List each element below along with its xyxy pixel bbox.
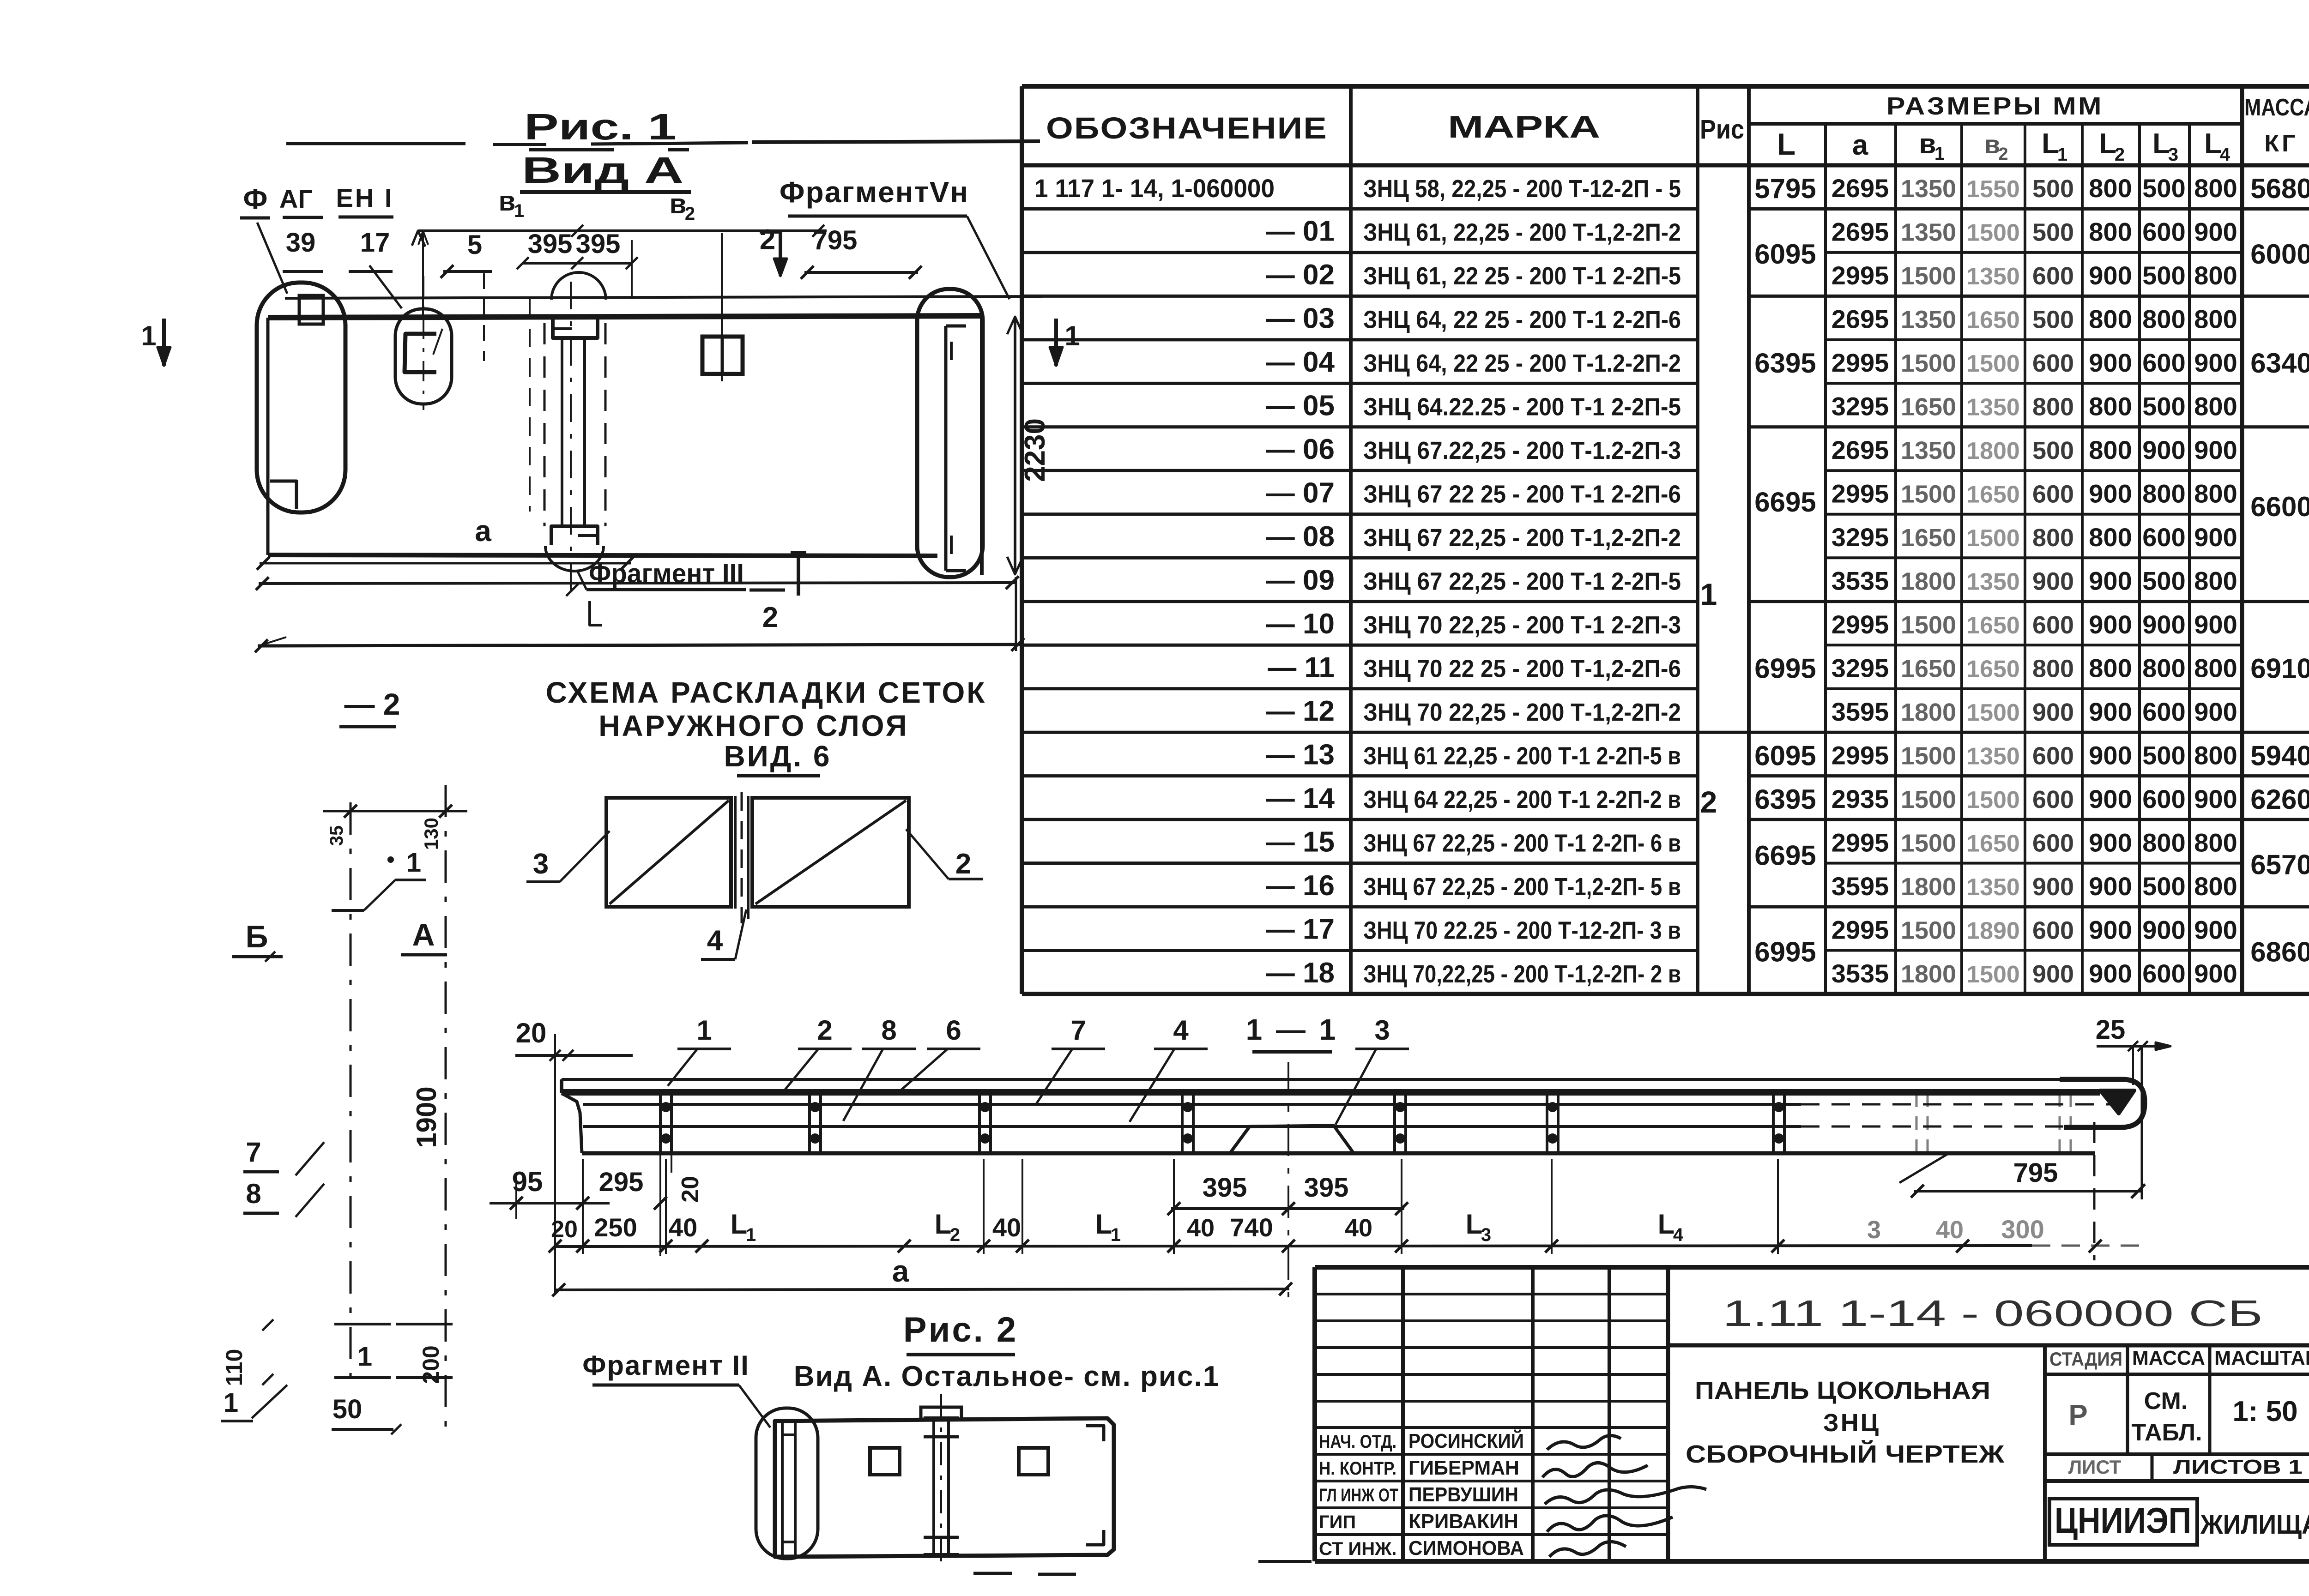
svg-text:5680: 5680 — [2250, 173, 2309, 204]
table row lines — [1022, 207, 1698, 211]
svg-text:6995: 6995 — [1754, 937, 1816, 968]
svg-text:900: 900 — [2089, 566, 2132, 596]
svg-text:1500: 1500 — [1966, 220, 2020, 247]
svg-text:КГ: КГ — [2264, 130, 2298, 157]
table header row lines — [1022, 163, 2309, 168]
svg-text:800: 800 — [2089, 392, 2132, 421]
svg-text:5940: 5940 — [2250, 740, 2309, 771]
section dim 20 left — [515, 1054, 633, 1057]
svg-text:L: L — [2042, 128, 2059, 160]
section mesh lines — [583, 1103, 1801, 1106]
svg-text:800: 800 — [2194, 261, 2237, 290]
svg-text:— 12: — 12 — [1266, 695, 1335, 727]
svg-text:РОСИНСКИЙ: РОСИНСКИЙ — [1408, 1429, 1524, 1452]
svg-text:ЗНЦ: ЗНЦ — [1823, 1409, 1880, 1437]
svg-text:L: L — [2099, 128, 2116, 160]
svg-text:ЦНИИЭП: ЦНИИЭП — [2055, 1500, 2191, 1541]
svg-text:500: 500 — [2142, 392, 2185, 421]
svg-text:600: 600 — [2142, 217, 2185, 247]
svg-text:1350: 1350 — [1966, 394, 2020, 421]
svg-text:— 17: — 17 — [1266, 913, 1335, 945]
svg-text:ЗНЦ 70 22.25 - 200 Т-12-2П- 3: ЗНЦ 70 22.25 - 200 Т-12-2П- 3 в — [1363, 916, 1681, 944]
svg-text:ЗНЦ 67 22,25 - 200 Т-1,2-2П- 5: ЗНЦ 67 22,25 - 200 Т-1,2-2П- 5 в — [1363, 873, 1681, 901]
fig1 panel body outline — [266, 318, 270, 555]
svg-text:6260: 6260 — [2250, 784, 2309, 815]
svg-text:600: 600 — [2032, 786, 2074, 813]
svg-text:МАССА: МАССА — [2244, 94, 2309, 121]
svg-text:Ф: Ф — [243, 183, 268, 215]
fig1 dim line 395 395 — [523, 262, 632, 265]
svg-text:1890: 1890 — [1966, 917, 2020, 944]
svg-text:600: 600 — [2142, 697, 2185, 726]
svg-text:ЗНЦ 70,22,25 - 200 Т-1,2-2П- 2: ЗНЦ 70,22,25 - 200 Т-1,2-2П- 2 в — [1363, 960, 1681, 988]
svg-text:3595: 3595 — [1831, 872, 1889, 901]
svg-text:900: 900 — [2089, 784, 2132, 813]
svg-text:ЗНЦ 67 22,25 - 200 Т-1,2-2П-2: ЗНЦ 67 22,25 - 200 Т-1,2-2П-2 — [1363, 524, 1681, 552]
svg-text:1350: 1350 — [1901, 219, 1956, 247]
svg-text:1650: 1650 — [1966, 612, 2020, 639]
svg-text:6395: 6395 — [1754, 348, 1816, 379]
svg-text:1650: 1650 — [1966, 656, 2020, 682]
svg-text:20: 20 — [677, 1176, 704, 1203]
svg-text:1650: 1650 — [1966, 830, 2020, 857]
svg-text:600: 600 — [2142, 784, 2185, 813]
svg-text:ФрагментVн: ФрагментVн — [780, 175, 969, 209]
svg-text:800: 800 — [2089, 174, 2132, 203]
svg-text:Вид А: Вид А — [522, 150, 683, 191]
titleblock signature row lines — [1315, 1293, 1668, 1295]
section right end rounded corner with anchor — [2060, 1079, 2145, 1127]
svg-text:1500: 1500 — [1966, 961, 2020, 988]
svg-text:1350: 1350 — [1901, 306, 1956, 334]
svg-text:40: 40 — [992, 1213, 1021, 1242]
svg-text:МАССА: МАССА — [2132, 1347, 2205, 1369]
fig1 center joint dashed sides — [544, 323, 546, 526]
fig1 right end capsule (fragment Vn zone) — [917, 289, 983, 577]
svg-text:900: 900 — [2194, 959, 2237, 988]
svg-text:800: 800 — [2194, 479, 2237, 508]
svg-text:3: 3 — [1481, 1225, 1491, 1245]
svg-text:1500: 1500 — [1901, 262, 1956, 290]
svg-text:110: 110 — [221, 1349, 247, 1386]
svg-text:5795: 5795 — [1754, 173, 1816, 204]
svg-text:900: 900 — [2089, 610, 2132, 639]
svg-text:ЗНЦ 64.22.25 - 200 Т-1 2-2П-5: ЗНЦ 64.22.25 - 200 Т-1 2-2П-5 — [1363, 393, 1681, 421]
svg-text:— 16: — 16 — [1266, 870, 1335, 902]
fig1 center joint bottom cap — [551, 526, 598, 545]
svg-text:800: 800 — [2194, 828, 2237, 857]
svg-text:1500: 1500 — [1901, 786, 1956, 813]
svg-text:1650: 1650 — [1901, 524, 1956, 552]
svg-text:1900: 1900 — [411, 1086, 442, 1148]
svg-text:ПЕРВУШИН: ПЕРВУШИН — [1408, 1483, 1518, 1506]
svg-text:7: 7 — [246, 1137, 261, 1168]
svg-text:800: 800 — [2142, 828, 2185, 857]
svg-text:— 05: — 05 — [1266, 390, 1335, 422]
svg-text:Рис: Рис — [1700, 114, 1744, 145]
svg-text:2: 2 — [760, 224, 775, 256]
svg-text:— 01: — 01 — [1266, 216, 1335, 247]
svg-text:— 18: — 18 — [1266, 957, 1335, 989]
fig1 section mark 1 left — [162, 319, 166, 366]
svg-text:1500: 1500 — [1966, 699, 2020, 726]
svg-text:500: 500 — [2032, 175, 2074, 203]
svg-text:МАСШТАБ: МАСШТАБ — [2214, 1347, 2309, 1369]
svg-text:1800: 1800 — [1901, 960, 1956, 988]
svg-text:600: 600 — [2032, 829, 2074, 857]
svg-text:ЗНЦ 58, 22,25 - 200 Т-12-2П -: ЗНЦ 58, 22,25 - 200 Т-12-2П - 5 — [1363, 175, 1681, 203]
svg-text:А: А — [412, 917, 435, 952]
svg-text:800: 800 — [2089, 217, 2132, 247]
svg-text:3295: 3295 — [1831, 523, 1889, 552]
fig1 leader from Fragment I to panel end — [257, 223, 287, 294]
svg-text:1500: 1500 — [1901, 916, 1956, 944]
section right end extension dashes — [2093, 1122, 2096, 1260]
fig1 vertical dim 2230 — [1014, 317, 1016, 574]
svg-text:ПАНЕЛЬ ЦОКОЛЬНАЯ: ПАНЕЛЬ ЦОКОЛЬНАЯ — [1695, 1377, 1990, 1404]
svg-text:СТАДИЯ: СТАДИЯ — [2049, 1348, 2122, 1370]
svg-text:500: 500 — [2032, 219, 2074, 247]
svg-text:— 10: — 10 — [1266, 608, 1335, 640]
svg-text:3535: 3535 — [1831, 959, 1889, 988]
svg-text:35: 35 — [326, 825, 347, 846]
svg-text:ЗНЦ 61, 22,25 - 200 Т-1,2-2П-2: ЗНЦ 61, 22,25 - 200 Т-1,2-2П-2 — [1363, 219, 1681, 247]
svg-text:1: 50: 1: 50 — [2232, 1396, 2297, 1427]
section extension verticals — [582, 1159, 584, 1254]
svg-text:800: 800 — [2194, 566, 2237, 596]
svg-text:500: 500 — [2142, 741, 2185, 770]
fig1 center joint axis — [570, 282, 572, 599]
svg-text:1550: 1550 — [1966, 176, 2020, 203]
svg-text:НАРУЖНОГО СЛОЯ: НАРУЖНОГО СЛОЯ — [598, 709, 908, 742]
svg-text:Б: Б — [246, 919, 268, 954]
fig1 section mark 2 top — [779, 230, 782, 276]
svg-text:Рис. 2: Рис. 2 — [903, 1310, 1018, 1349]
section faint right ribs — [1916, 1093, 1918, 1152]
svg-text:6910: 6910 — [2250, 653, 2309, 684]
sheet frame bottom dashes — [1258, 1560, 1312, 1563]
svg-text:600: 600 — [2032, 916, 2074, 944]
fig1 extension line from 5 dim — [483, 273, 485, 361]
svg-text:1500: 1500 — [1901, 742, 1956, 770]
svg-text:1350: 1350 — [1901, 175, 1956, 203]
svg-text:НАЧ. ОТД.: НАЧ. ОТД. — [1319, 1432, 1396, 1452]
svg-text:800: 800 — [2089, 653, 2132, 682]
section bottom chord — [582, 1151, 2095, 1156]
svg-text:3: 3 — [533, 848, 549, 880]
svg-text:39: 39 — [286, 228, 316, 258]
svg-text:600: 600 — [2142, 348, 2185, 377]
svg-text:17: 17 — [360, 228, 390, 258]
svg-text:500: 500 — [2142, 872, 2185, 901]
svg-text:2695: 2695 — [1831, 217, 1889, 247]
svg-text:2695: 2695 — [1831, 435, 1889, 464]
svg-text:1500: 1500 — [1901, 829, 1956, 857]
svg-text:1500: 1500 — [1901, 611, 1956, 639]
svg-text:1 117 1- 14, 1-060000: 1 117 1- 14, 1-060000 — [1034, 174, 1275, 203]
fig1 inner anchor centerline — [423, 276, 424, 410]
svg-text:ГЛ ИНЖ ОТ: ГЛ ИНЖ ОТ — [1319, 1485, 1398, 1506]
fig1 dim line 795 — [804, 271, 918, 274]
svg-text:1: 1 — [746, 1225, 756, 1245]
svg-text:2: 2 — [950, 1225, 960, 1245]
svg-text:40: 40 — [669, 1213, 697, 1242]
svg-text:— 03: — 03 — [1266, 303, 1335, 335]
svg-text:2: 2 — [817, 1015, 832, 1046]
titleblock signatures squiggles — [1547, 1435, 1621, 1450]
svg-text:500: 500 — [2032, 437, 2074, 464]
svg-text:900: 900 — [2194, 348, 2237, 377]
scheme right mesh rect — [752, 798, 909, 907]
titleblock list row — [2045, 1452, 2309, 1456]
svg-text:1: 1 — [1934, 144, 1945, 164]
svg-text:— 02: — 02 — [1266, 259, 1335, 291]
fig1 inner anchor bracket — [405, 334, 436, 372]
svg-text:800: 800 — [2194, 872, 2237, 901]
svg-text:600: 600 — [2032, 262, 2074, 290]
svg-text:— 11: — 11 — [1268, 651, 1335, 683]
svg-text:4: 4 — [707, 925, 723, 957]
svg-text:1: 1 — [1111, 1225, 1121, 1245]
svg-text:40: 40 — [1345, 1214, 1372, 1242]
svg-text:600: 600 — [2142, 959, 2185, 988]
svg-text:295: 295 — [599, 1167, 644, 1197]
svg-text:ЗНЦ 64, 22 25 - 200 Т-1 2-2П-6: ЗНЦ 64, 22 25 - 200 Т-1 2-2П-6 — [1363, 306, 1681, 334]
svg-text:1500: 1500 — [1966, 787, 2020, 813]
svg-text:20: 20 — [551, 1216, 578, 1243]
svg-text:ЗНЦ 64 22,25 - 200 Т-1 2-2П-2: ЗНЦ 64 22,25 - 200 Т-1 2-2П-2 в — [1363, 786, 1681, 813]
svg-text:ЛИСТОВ 1: ЛИСТОВ 1 — [2173, 1456, 2303, 1478]
svg-text:1350: 1350 — [1966, 743, 2020, 770]
fig1 left end capsule (fragment I zone) — [257, 283, 345, 512]
svg-text:1500: 1500 — [1966, 525, 2020, 552]
svg-text:600: 600 — [2032, 611, 2074, 639]
vertical axis lines for columns B and A — [350, 802, 352, 1383]
svg-text:СБОРОЧНЫЙ ЧЕРТЕЖ: СБОРОЧНЫЙ ЧЕРТЕЖ — [1686, 1440, 2005, 1468]
svg-text:900: 900 — [2089, 915, 2132, 944]
svg-text:ЗНЦ 67 22 25 - 200 Т-1 2-2П-6: ЗНЦ 67 22 25 - 200 Т-1 2-2П-6 — [1363, 481, 1681, 508]
svg-text:600: 600 — [2032, 481, 2074, 508]
svg-text:900: 900 — [2194, 697, 2237, 726]
svg-text:1650: 1650 — [1966, 307, 2020, 334]
svg-text:Рис. 1: Рис. 1 — [524, 106, 677, 147]
svg-text:800: 800 — [2194, 653, 2237, 682]
svg-text:200: 200 — [418, 1345, 444, 1384]
fig2 panel outline — [775, 1418, 1114, 1557]
svg-text:1: 1 — [357, 1342, 372, 1372]
svg-text:2935: 2935 — [1831, 784, 1889, 813]
svg-text:ЛИСТ: ЛИСТ — [2068, 1456, 2122, 1478]
svg-text:1: 1 — [141, 320, 156, 351]
svg-text:МАРКА: МАРКА — [1448, 109, 1600, 145]
svg-text:— 07: — 07 — [1266, 477, 1335, 509]
fig1 panel top mesh line — [285, 296, 1042, 298]
svg-text:1.11 1-14 - 060000 СБ: 1.11 1-14 - 060000 СБ — [1723, 1293, 2263, 1334]
svg-text:900: 900 — [2032, 699, 2074, 726]
svg-text:130: 130 — [420, 818, 442, 850]
svg-text:2: 2 — [1998, 145, 2008, 164]
svg-text:ЗНЦ 70 22 25 - 200 Т-1,2-2П-6: ЗНЦ 70 22 25 - 200 Т-1,2-2П-6 — [1363, 655, 1681, 682]
svg-text:2: 2 — [955, 848, 971, 880]
svg-text:2: 2 — [762, 602, 778, 633]
svg-text:900: 900 — [2142, 915, 2185, 944]
svg-text:1: 1 — [1064, 320, 1080, 351]
svg-text:800: 800 — [2142, 479, 2185, 508]
svg-text:— 06: — 06 — [1266, 434, 1335, 465]
fig1 bottom lines — [259, 583, 1016, 584]
svg-text:3595: 3595 — [1831, 697, 1889, 726]
svg-text:ЗНЦ 70 22,25 - 200 Т-1 2-2П-3: ЗНЦ 70 22,25 - 200 Т-1 2-2П-3 — [1363, 611, 1681, 639]
svg-text:900: 900 — [2089, 741, 2132, 770]
svg-text:900: 900 — [2194, 217, 2237, 247]
svg-text:40: 40 — [1936, 1216, 1964, 1244]
svg-text:Р: Р — [2068, 1399, 2087, 1431]
svg-text:Вид А. Остальное- см. рис.1: Вид А. Остальное- см. рис.1 — [794, 1361, 1220, 1392]
svg-text:800: 800 — [2194, 392, 2237, 421]
svg-text:800: 800 — [2194, 305, 2237, 334]
table column lines — [1349, 86, 1353, 994]
fig2 left capsule — [756, 1408, 818, 1559]
svg-text:— 08: — 08 — [1266, 521, 1335, 553]
svg-text:ЗНЦ 64, 22 25 - 200 Т-1.2-2П-2: ЗНЦ 64, 22 25 - 200 Т-1.2-2П-2 — [1363, 349, 1681, 377]
svg-text:— 15: — 15 — [1266, 826, 1335, 858]
svg-text:900: 900 — [2194, 523, 2237, 552]
section left edge — [560, 1079, 563, 1093]
svg-text:800: 800 — [2194, 174, 2237, 203]
fig1 inner anchor capsule — [395, 309, 452, 404]
section center axis — [1287, 1062, 1289, 1302]
svg-text:5: 5 — [467, 230, 482, 260]
svg-text:ВИД. 6: ВИД. 6 — [724, 740, 832, 773]
svg-text:3535: 3535 — [1831, 566, 1889, 596]
fig2 left end inner lines — [781, 1421, 784, 1557]
svg-text:900: 900 — [2089, 828, 2132, 857]
svg-text:800: 800 — [2142, 653, 2185, 682]
svg-text:2: 2 — [685, 204, 695, 224]
section top slab — [562, 1078, 2106, 1081]
svg-text:ГИБЕРМАН: ГИБЕРМАН — [1408, 1457, 1519, 1479]
svg-text:в: в — [670, 188, 687, 219]
svg-text:ЗНЦ 67 22,25 - 200 Т-1 2-2П- 6: ЗНЦ 67 22,25 - 200 Т-1 2-2П- 6 в — [1363, 829, 1681, 857]
svg-text:1350: 1350 — [1966, 874, 2020, 901]
svg-text:25: 25 — [2096, 1015, 2126, 1045]
svg-text:Н. КОНТР.: Н. КОНТР. — [1319, 1458, 1396, 1479]
svg-text:6095: 6095 — [1754, 239, 1816, 270]
titleblock stage-mass-scale header — [2043, 1345, 2047, 1561]
svg-text:L: L — [731, 1209, 748, 1240]
svg-text:900: 900 — [2089, 697, 2132, 726]
svg-text:1 — 1: 1 — 1 — [1246, 1013, 1339, 1046]
svg-text:— 04: — 04 — [1266, 346, 1335, 378]
svg-text:500: 500 — [2032, 306, 2074, 334]
svg-text:— 2: — 2 — [344, 687, 400, 721]
fig2 right corner marks — [1086, 1426, 1104, 1441]
svg-text:ГИП: ГИП — [1319, 1512, 1356, 1532]
svg-text:395: 395 — [1304, 1173, 1349, 1203]
svg-text:300: 300 — [2001, 1215, 2044, 1244]
fig1 center joint vertical bars — [561, 338, 563, 526]
section leader lines — [668, 1049, 697, 1086]
svg-text:СТ ИНЖ.: СТ ИНЖ. — [1319, 1539, 1396, 1559]
section middle hump — [1230, 1126, 1353, 1153]
fig1 lower dim line left group — [283, 270, 323, 273]
svg-text:3: 3 — [1867, 1216, 1881, 1244]
svg-text:3: 3 — [2168, 145, 2178, 165]
svg-text:2: 2 — [1700, 785, 1717, 819]
titleblock signature column lines — [1401, 1267, 1405, 1561]
svg-text:800: 800 — [2032, 524, 2074, 552]
svg-text:6860: 6860 — [2250, 937, 2309, 968]
svg-text:800: 800 — [2089, 305, 2132, 334]
svg-text:8: 8 — [246, 1178, 261, 1209]
svg-text:2995: 2995 — [1831, 610, 1889, 639]
scheme middle joint strip — [734, 796, 737, 909]
fig1 leader from 17 to anchor ellipse — [369, 265, 402, 308]
fig1 left capsule interior marks — [299, 295, 323, 324]
svg-text:6600: 6600 — [2250, 491, 2309, 522]
svg-text:900: 900 — [2194, 435, 2237, 464]
svg-text:800: 800 — [2089, 523, 2132, 552]
svg-text:395: 395 — [576, 229, 621, 259]
svg-text:500: 500 — [2142, 174, 2185, 203]
svg-text:800: 800 — [2194, 741, 2237, 770]
svg-text:6570: 6570 — [2250, 849, 2309, 880]
svg-text:1800: 1800 — [1901, 568, 1956, 596]
fig1 section mark 1 right — [1054, 319, 1058, 366]
section ribs — [659, 1092, 662, 1153]
svg-text:6995: 6995 — [1754, 653, 1816, 684]
fig1 stray mark — [259, 637, 286, 646]
fig1 panel top face — [268, 316, 982, 318]
small dim above axes — [323, 810, 467, 813]
svg-text:395: 395 — [528, 229, 573, 259]
svg-text:ЗНЦ 70 22,25 - 200 Т-1,2-2П-2: ЗНЦ 70 22,25 - 200 Т-1,2-2П-2 — [1363, 699, 1681, 726]
fig1 dim line v1 v2 — [418, 229, 827, 232]
svg-text:2995: 2995 — [1831, 348, 1889, 377]
svg-text:ЕН I: ЕН I — [336, 183, 394, 212]
svg-text:1: 1 — [1700, 577, 1717, 611]
svg-text:900: 900 — [2089, 872, 2132, 901]
svg-text:2695: 2695 — [1831, 174, 1889, 203]
svg-text:600: 600 — [2032, 349, 2074, 377]
svg-text:СХЕМА РАСКЛАДКИ СЕТОК: СХЕМА РАСКЛАДКИ СЕТОК — [546, 676, 987, 709]
svg-text:1800: 1800 — [1966, 438, 2020, 464]
svg-text:6: 6 — [946, 1015, 961, 1046]
svg-text:395: 395 — [1203, 1173, 1247, 1203]
svg-text:в: в — [1919, 128, 1936, 159]
svg-text:ЗНЦ 61 22,25 - 200 Т-1 2-2П-5: ЗНЦ 61 22,25 - 200 Т-1 2-2П-5 в — [1363, 742, 1681, 770]
svg-text:900: 900 — [2032, 873, 2074, 901]
fig1 center joint bottom arc — [545, 546, 604, 571]
table outer border — [1022, 84, 2309, 89]
svg-text:2230: 2230 — [1019, 418, 1051, 482]
svg-text:4: 4 — [1173, 1015, 1189, 1046]
svg-text:900: 900 — [2089, 479, 2132, 508]
fig2 center joint — [932, 1418, 935, 1555]
fig2 anchor squares — [870, 1448, 900, 1475]
svg-text:— 09: — 09 — [1266, 565, 1335, 596]
fig1 center joint dome — [551, 272, 606, 300]
svg-text:800: 800 — [2032, 393, 2074, 421]
svg-text:600: 600 — [2142, 523, 2185, 552]
svg-text:900: 900 — [2089, 959, 2132, 988]
svg-text:1: 1 — [2057, 145, 2067, 165]
svg-text:800: 800 — [2089, 435, 2132, 464]
svg-text:ЗНЦ 67.22,25 - 200 Т-1.2-2П-3: ЗНЦ 67.22,25 - 200 Т-1.2-2П-3 — [1363, 437, 1681, 464]
svg-text:L: L — [2152, 128, 2170, 160]
svg-text:2995: 2995 — [1831, 741, 1889, 770]
svg-text:900: 900 — [2032, 960, 2074, 988]
